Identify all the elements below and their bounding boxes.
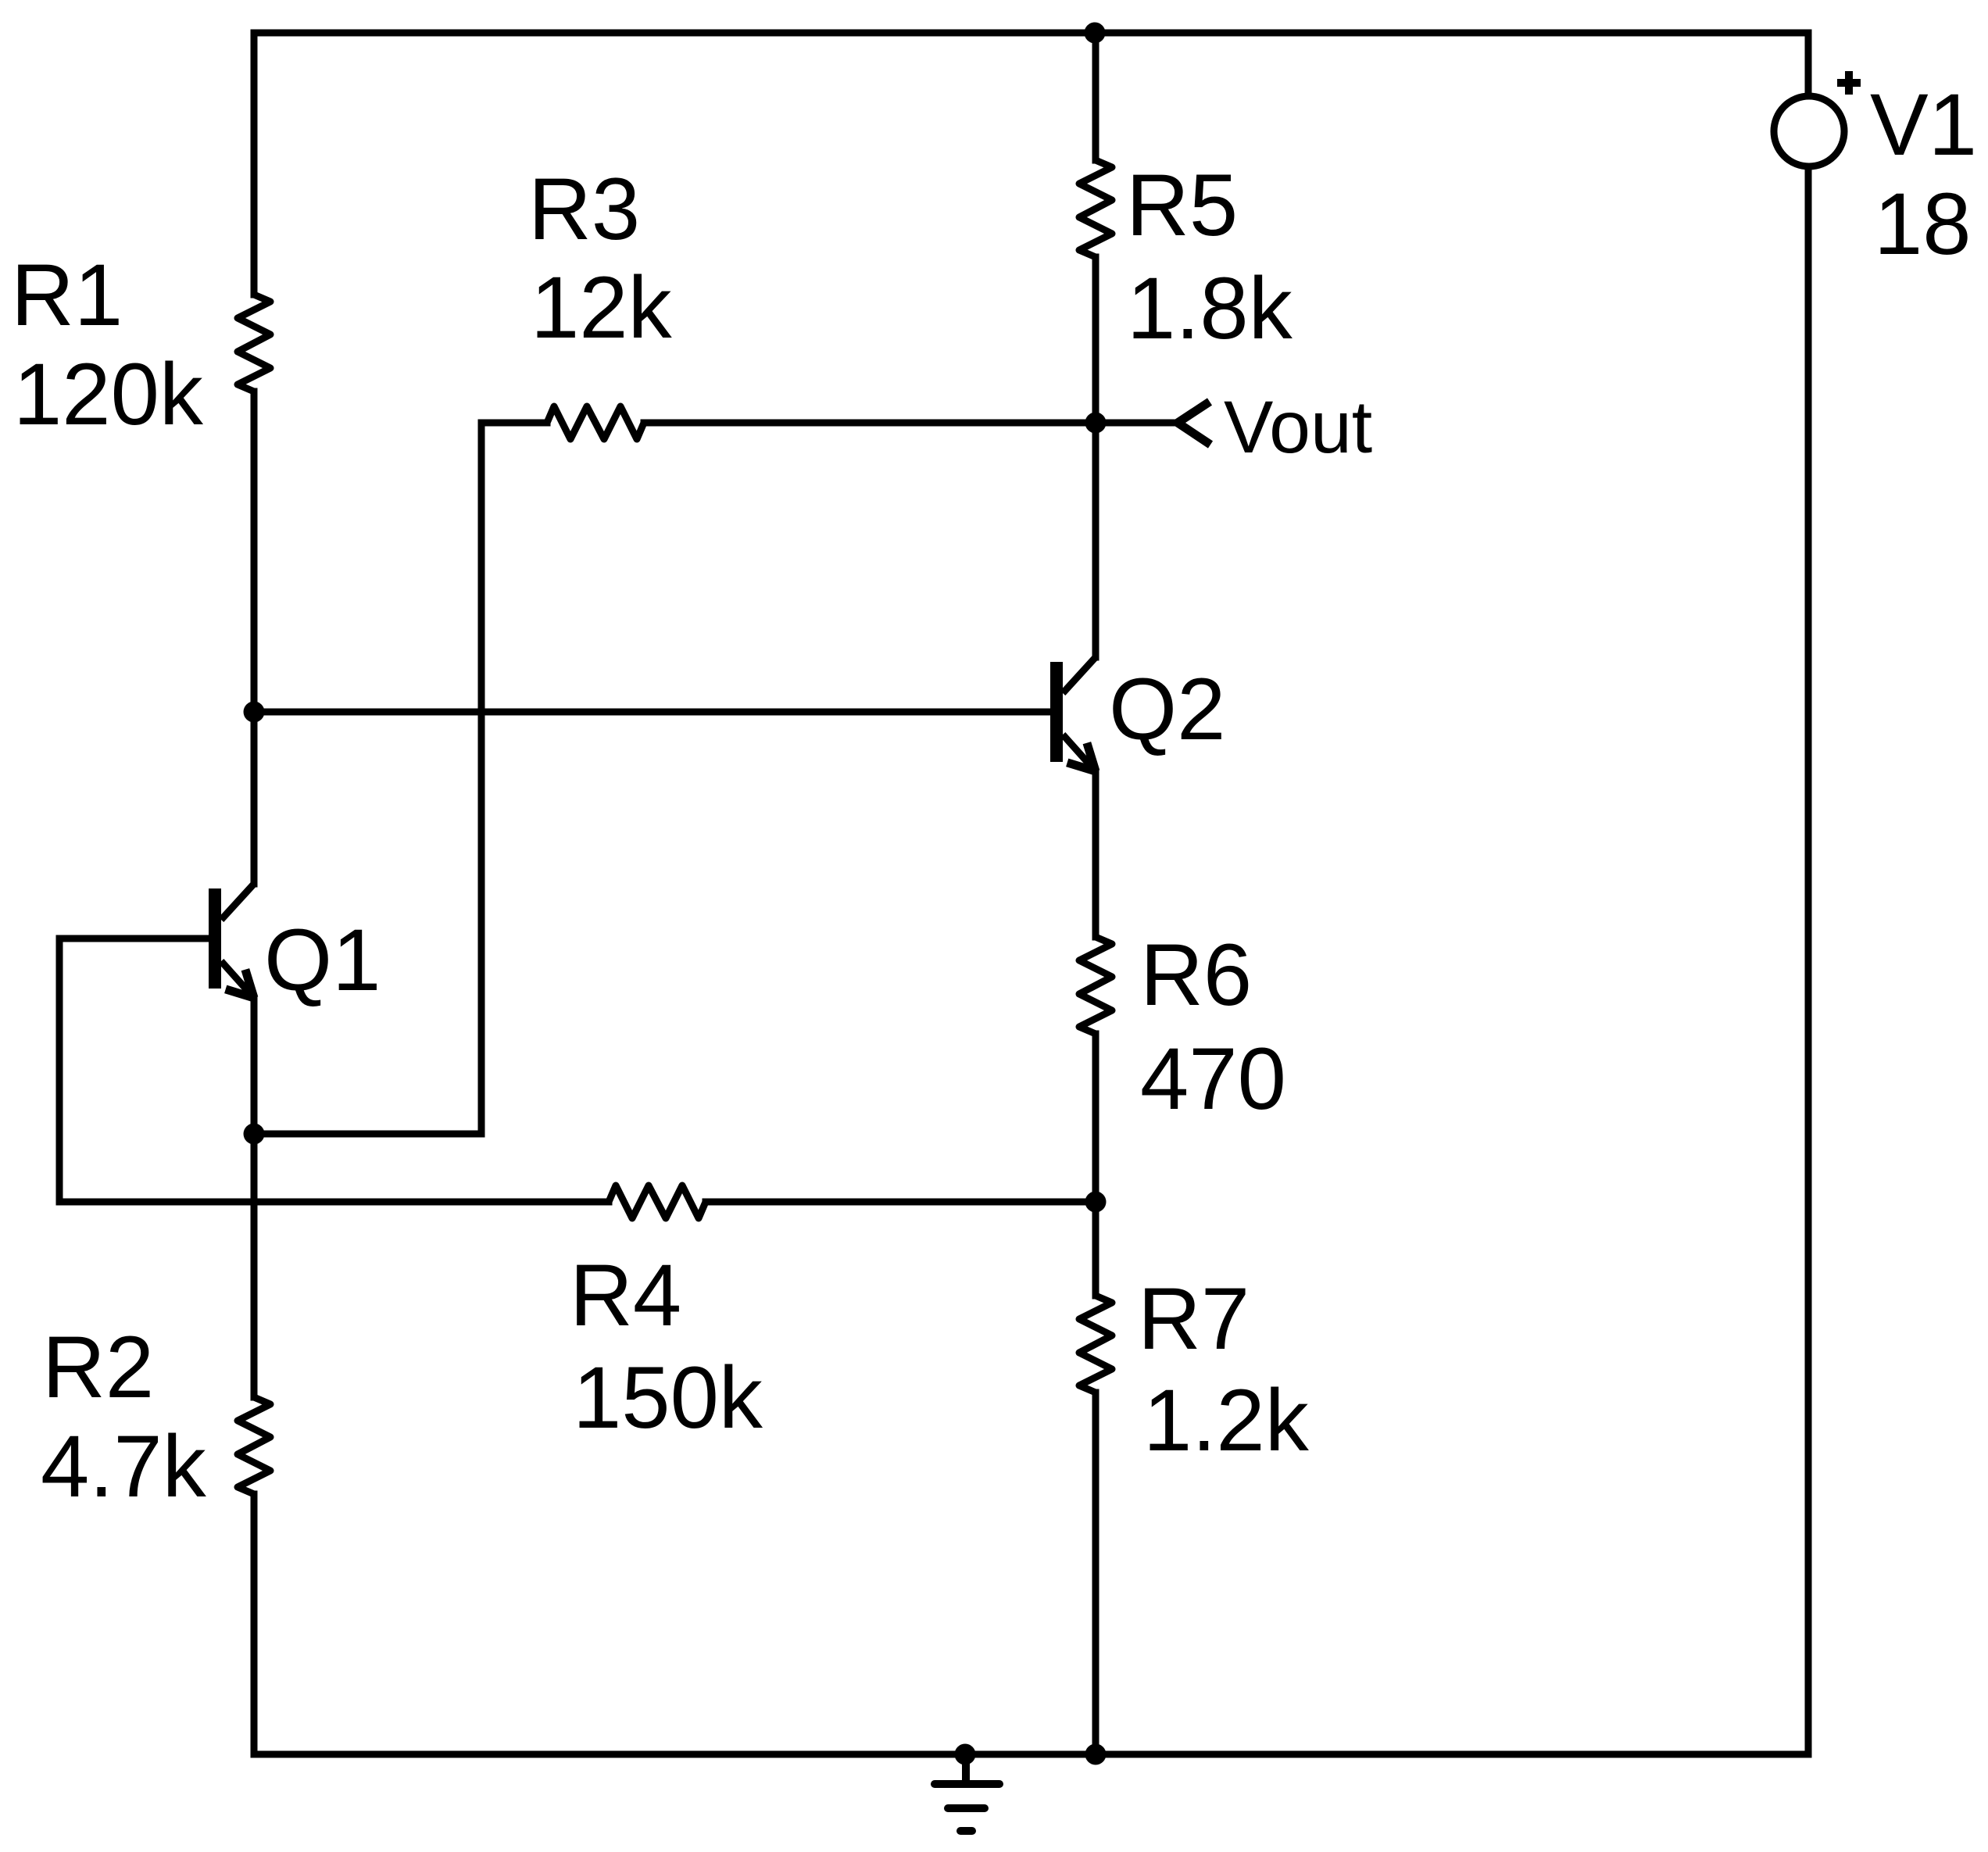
svg-text:12k: 12k [531, 259, 673, 356]
svg-text:R6: R6 [1140, 926, 1252, 1024]
wire bottom rail [254, 1751, 1808, 1758]
svg-text:120k: 120k [13, 345, 204, 443]
wire right rail lower [1805, 166, 1812, 1754]
svg-text:1.2k: 1.2k [1143, 1371, 1310, 1469]
resistor R7 [1079, 1296, 1112, 1393]
wire R6 to node [1092, 1034, 1099, 1202]
wire R7 to bottom rail [1092, 1393, 1099, 1754]
wire Vout stub [1096, 420, 1178, 427]
svg-text:470: 470 [1140, 1030, 1286, 1128]
wire R3 left vertical [478, 423, 485, 1134]
wire node to R7 [1092, 1202, 1099, 1296]
resistor R6 [1079, 937, 1112, 1034]
wire R4 to node [706, 1199, 1096, 1206]
resistor R3 [547, 406, 644, 439]
V1 plus sign [1837, 71, 1861, 95]
wire R3 to Vout node [644, 420, 1096, 427]
wire Q1 base loop [59, 939, 609, 1202]
wire R3 left lead [481, 420, 547, 427]
junction dot R4 node [1085, 1192, 1107, 1213]
svg-text:150k: 150k [573, 1349, 763, 1446]
svg-text:Q2: Q2 [1109, 660, 1225, 758]
ground [935, 1754, 999, 1831]
junction dot R7 bottom [1085, 1744, 1107, 1765]
wire top rail [254, 30, 1808, 37]
wire left rail middle [251, 391, 258, 884]
transistor Q2 [1050, 657, 1096, 771]
junction dot top node [1085, 23, 1106, 44]
resistor R5 [1079, 160, 1112, 257]
svg-text:1.8k: 1.8k [1127, 259, 1293, 357]
junction dot base node [244, 702, 265, 723]
resistor R1 [238, 295, 270, 391]
svg-text:R4: R4 [570, 1246, 681, 1344]
svg-text:4.7k: 4.7k [41, 1418, 207, 1515]
resistor R2 [238, 1397, 270, 1494]
wire right rail upper [1805, 33, 1812, 96]
wire base node to Q2 base [254, 709, 1050, 716]
voltage source V1 [1774, 96, 1844, 166]
junction dot Vout node [1085, 413, 1107, 434]
Vout arrow [1178, 402, 1210, 445]
svg-text:Q1: Q1 [264, 911, 381, 1009]
wire left rail lower [251, 1494, 258, 1754]
junction dot ground node [955, 1744, 976, 1765]
svg-text:R2: R2 [42, 1318, 154, 1416]
svg-text:18: 18 [1874, 175, 1972, 273]
transistor Q1 [209, 884, 254, 998]
svg-text:R5: R5 [1126, 156, 1238, 254]
svg-text:V1: V1 [1870, 76, 1977, 173]
junction dot Q1 emitter node [244, 1124, 265, 1145]
wire R5 top lead [1092, 33, 1099, 160]
resistor R4 [609, 1185, 706, 1218]
svg-text:R3: R3 [528, 160, 640, 258]
svg-text:R7: R7 [1138, 1270, 1250, 1368]
wire Q1 emitter down [251, 998, 258, 1397]
wire Q2 collector [1092, 423, 1099, 657]
wire left rail upper [251, 33, 258, 295]
svg-text:Vout: Vout [1224, 386, 1372, 469]
svg-text:R1: R1 [11, 246, 123, 344]
wire Q2 emitter down [1092, 771, 1099, 937]
wire emitter node to R3 vertical [254, 1131, 481, 1138]
wire R5 bottom lead [1092, 257, 1099, 423]
